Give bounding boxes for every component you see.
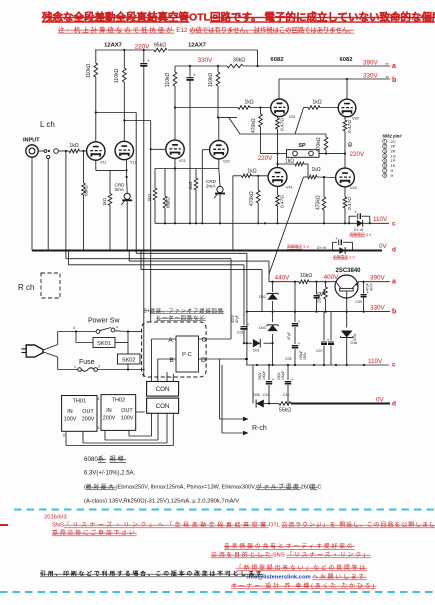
- svg-text:6082: 6082: [340, 57, 353, 63]
- svg-text:30kΩ: 30kΩ: [233, 58, 245, 64]
- resistor R 470k V41grid: [257, 176, 259, 190]
- wire bundle4: [150, 121, 152, 251]
- svg-text:1kΩ: 1kΩ: [102, 197, 107, 206]
- node fuse-sk02: [127, 368, 129, 370]
- svg-text:C09: C09: [356, 300, 363, 304]
- wire plug to top: [43, 345, 58, 351]
- node railc: [257, 222, 259, 224]
- svg-text:オーナー 設計 芥 幸博(あくた たかひろ): オーナー 設計 芥 幸博(あくた たかひろ): [231, 582, 376, 590]
- node k12: [126, 169, 128, 171]
- node sw: [48, 150, 50, 152]
- wire sub3: [128, 251, 130, 262]
- wire rail d psu thick: [291, 403, 390, 405]
- svg-text:TH02: TH02: [111, 398, 125, 404]
- wire V32 cathode: [344, 117, 346, 120]
- CRD D 2mA #1: [126, 170, 128, 177]
- svg-text:3: 3: [73, 326, 75, 330]
- svg-text:TH01: TH01: [72, 399, 86, 405]
- node subd: [246, 358, 248, 360]
- node d06: [268, 402, 270, 404]
- svg-text:6: 6: [384, 164, 386, 168]
- node railc psu: [313, 364, 315, 366]
- wire psu drop2: [150, 251, 152, 323]
- node v12b2: [123, 119, 125, 121]
- node 470kv32: [325, 153, 327, 155]
- resistor R 0.47 V42: [343, 197, 347, 208]
- svg-text:110kΩ: 110kΩ: [208, 73, 214, 87]
- svg-text:両端電圧 3 V: 両端電圧 3 V: [333, 255, 355, 260]
- node railc: [264, 222, 266, 224]
- wire V21 cathode: [174, 159, 176, 169]
- zener D02: [272, 282, 274, 292]
- node d02: [272, 281, 274, 283]
- cyan dashed separator top: [14, 509, 435, 511]
- svg-text:SK02: SK02: [122, 358, 136, 364]
- node v11b2: [95, 111, 97, 113]
- node pc D: [245, 358, 247, 360]
- SK02 box: [118, 354, 141, 364]
- svg-text:(A-class) 135V,Rk250Ω(-31.25V): (A-class) 135V,Rk250Ω(-31.25V),125mA, µ …: [84, 499, 239, 505]
- node q-b: [346, 311, 348, 313]
- svg-text:2mA: 2mA: [206, 184, 216, 189]
- svg-text:68kΩ: 68kΩ: [84, 185, 89, 196]
- wire sub5: [140, 251, 142, 270]
- resistor R 0.47 V41: [276, 195, 280, 206]
- svg-text:d: d: [392, 401, 396, 408]
- svg-text:47µF: 47µF: [235, 315, 239, 323]
- power switch: [75, 330, 77, 332]
- zener D03: [272, 312, 274, 322]
- capacitor C 220V filter: [143, 50, 145, 63]
- switch contact gnd: [47, 155, 50, 158]
- svg-text:470kΩ: 470kΩ: [316, 195, 322, 210]
- svg-text:+: +: [147, 59, 150, 64]
- capacitor C 330V filter: [189, 66, 191, 77]
- node sp1: [276, 153, 278, 155]
- svg-text:c: c: [392, 221, 396, 228]
- svg-text:V42: V42: [350, 186, 357, 190]
- resistor R 470k V32: [325, 134, 327, 137]
- node d01b: [272, 342, 274, 344]
- node railc psu: [346, 364, 348, 366]
- svg-text:+: +: [327, 338, 330, 343]
- svg-text:両端電圧 3 V: 両端電圧 3 V: [350, 232, 372, 237]
- svg-text:V22: V22: [223, 159, 230, 163]
- svg-text:b: b: [392, 309, 396, 316]
- resistor R 470k V31: [260, 108, 262, 115]
- node v41g: [257, 175, 259, 177]
- svg-text:d: d: [392, 247, 396, 254]
- wire pc A: [152, 338, 177, 340]
- svg-text:OUT: OUT: [121, 408, 133, 414]
- svg-text:+: +: [272, 378, 275, 383]
- speaker box: [287, 150, 320, 158]
- node railb: [324, 311, 326, 313]
- wire rail b psu: [247, 311, 390, 313]
- svg-text:2: 2: [384, 145, 386, 149]
- svg-text:1kΩ: 1kΩ: [285, 159, 294, 165]
- svg-text:1kΩ: 1kΩ: [244, 100, 253, 106]
- cap+diode at c: [357, 213, 359, 219]
- node railc: [323, 222, 325, 224]
- svg-text:2: 2: [98, 365, 100, 369]
- diode D01: [244, 342, 252, 344]
- node railc: [189, 222, 191, 224]
- wire sub1: [135, 251, 137, 254]
- CRD D 2mA #2: [219, 169, 220, 187]
- svg-text:1kΩ: 1kΩ: [69, 143, 78, 149]
- svg-text:10kΩ: 10kΩ: [300, 273, 312, 279]
- svg-text:57: 57: [386, 62, 390, 66]
- title line 1 (red): [42, 11, 435, 24]
- svg-text:A: A: [168, 337, 173, 344]
- wire V22 plate up: [218, 117, 220, 140]
- svg-text:6082 pin#: 6082 pin#: [383, 134, 403, 139]
- wire rch arrow 2: [221, 365, 223, 433]
- svg-text:4: 4: [384, 154, 386, 158]
- svg-text:P·C: P·C: [182, 352, 192, 358]
- svg-text:2SC3840: 2SC3840: [335, 268, 361, 274]
- resistor R 10k psu: [299, 280, 309, 284]
- node railc psu: [335, 364, 337, 366]
- node sp2: [344, 153, 346, 155]
- node d01a: [246, 342, 248, 344]
- svg-text:+: +: [335, 236, 338, 241]
- wire V21 plate up: [174, 108, 176, 141]
- wire V41 cathode: [277, 186, 279, 195]
- wire th right: [136, 411, 145, 413]
- resistor 95k on rail: [154, 46, 168, 54]
- tube V32 6082: [338, 99, 356, 117]
- capacitor C09: [363, 282, 365, 294]
- wire V11 cathode: [95, 160, 97, 170]
- svg-text:440V: 440V: [275, 275, 291, 282]
- node railc psu: [363, 364, 365, 366]
- wire V22 plate branch: [218, 116, 237, 118]
- svg-text:250V: 250V: [277, 371, 281, 380]
- resistor R 1k NFB: [278, 163, 296, 165]
- node rail2-110k4: [217, 65, 219, 67]
- svg-text:H: H: [391, 173, 394, 178]
- svg-text:a: a: [392, 63, 396, 70]
- svg-text:110kΩ: 110kΩ: [86, 64, 92, 78]
- node railb: [363, 311, 365, 313]
- resistor R 1k V32 grid: [304, 107, 309, 109]
- tube V11 12AX7: [87, 142, 105, 160]
- wire rail c 110V: [155, 222, 389, 224]
- node psu 400v: [315, 281, 317, 283]
- SK01 box: [93, 338, 115, 348]
- node railc: [219, 222, 221, 224]
- capacitor C05: [323, 312, 325, 341]
- svg-text:V32: V32: [352, 117, 359, 121]
- svg-text:IN: IN: [67, 409, 72, 415]
- node railc: [195, 222, 197, 224]
- node rail1-110k2: [123, 49, 125, 51]
- svg-text:52: 52: [386, 75, 390, 79]
- svg-text:V11: V11: [100, 161, 106, 165]
- wire jack gnd down: [31, 157, 33, 250]
- svg-text:b: b: [392, 77, 396, 84]
- svg-text:C10: C10: [263, 393, 270, 397]
- node nfb: [276, 163, 278, 165]
- svg-text:220V: 220V: [135, 44, 151, 51]
- wire sw gnd down: [47, 159, 49, 251]
- node railb: [315, 311, 317, 313]
- svg-text:100µF: 100µF: [281, 371, 285, 380]
- svg-text:L ch: L ch: [40, 120, 55, 129]
- svg-text:+: +: [247, 323, 250, 328]
- wire pc B: [158, 358, 176, 360]
- svg-text:3: 3: [384, 149, 386, 153]
- wire d01 down: [272, 343, 274, 365]
- node v21 grid: [150, 148, 152, 150]
- resistor R 110k #4: [217, 66, 219, 72]
- node V31 grid: [259, 106, 261, 108]
- node bus2: [109, 249, 111, 251]
- wire V32 plate up: [346, 79, 348, 99]
- svg-text:6080系 規格: 6080系 規格: [84, 455, 126, 463]
- svg-text:+: +: [193, 74, 196, 79]
- svg-text:B: B: [169, 357, 173, 364]
- wire sk02 down: [127, 364, 129, 370]
- svg-text:1: 1: [74, 365, 76, 369]
- resistor R 1k V42 grid: [304, 176, 309, 178]
- svg-text:0.47Ω: 0.47Ω: [347, 120, 353, 133]
- svg-text:+: +: [298, 342, 301, 347]
- svg-text:110V: 110V: [373, 216, 388, 223]
- svg-text:C11: C11: [283, 393, 289, 397]
- node a cap: [363, 281, 365, 283]
- transistor Q 2SC3840: [335, 275, 358, 298]
- resistor R 55k: [279, 402, 291, 406]
- tube V41 6082: [268, 168, 287, 187]
- svg-text:D× ×5: D× ×5: [354, 228, 363, 232]
- svg-text:V21: V21: [179, 159, 186, 163]
- node bus1: [65, 249, 67, 251]
- svg-text:INPUT: INPUT: [23, 138, 40, 144]
- svg-text:55kΩ: 55kΩ: [279, 408, 291, 414]
- diode D06: [252, 365, 254, 404]
- svg-text:D× ×5: D× ×5: [317, 246, 326, 250]
- svg-text:CON: CON: [156, 403, 170, 410]
- zener D16: [341, 331, 353, 338]
- wire bundle1: [135, 113, 137, 251]
- wire V42 cathode: [344, 187, 346, 197]
- node k21: [174, 167, 176, 169]
- node railc: [201, 222, 203, 224]
- node railc psu: [268, 364, 270, 366]
- svg-text:両端電圧 3 V: 両端電圧 3 V: [287, 244, 309, 249]
- node railc psu: [256, 364, 258, 366]
- svg-text:D01: D01: [253, 349, 260, 353]
- node in2: [82, 150, 84, 152]
- svg-text:R ch: R ch: [18, 283, 34, 292]
- wire V11 plate branch: [96, 112, 136, 114]
- resistor 30k on rail2: [227, 62, 243, 70]
- node railc: [276, 222, 278, 224]
- node b-V32: [346, 78, 348, 80]
- svg-text:ヒーター回路など: ヒーター回路など: [156, 315, 206, 322]
- node c2: [174, 106, 176, 108]
- wire V12 plate branch: [124, 120, 150, 122]
- wire psu drop1: [143, 251, 145, 378]
- svg-text:5: 5: [384, 159, 386, 163]
- resistor R 110k #2: [123, 50, 125, 68]
- svg-text:12AX7: 12AX7: [188, 43, 206, 49]
- wire fuse right: [97, 369, 144, 371]
- svg-text:68kΩ: 68kΩ: [166, 197, 171, 208]
- svg-text:C01: C01: [237, 331, 244, 335]
- svg-text:+: +: [298, 320, 301, 325]
- resistor R 110k #3: [174, 66, 176, 72]
- node railc: [174, 222, 176, 224]
- svg-text:音楽情報の共有とオーディオ愛好家の: 音楽情報の共有とオーディオ愛好家の: [224, 542, 355, 550]
- svg-text:8: 8: [384, 174, 386, 178]
- svg-text:意見交換にご参加下さい: 意見交換にご参加下さい: [52, 529, 137, 537]
- svg-text:B+遅延、ファンオフ遅延回路: B+遅延、ファンオフ遅延回路: [144, 308, 225, 315]
- svg-text:8: 8: [63, 434, 65, 438]
- TH02 box: [101, 395, 136, 431]
- wire V41 plate up: [277, 154, 279, 168]
- node rail2-cap2: [189, 65, 191, 67]
- svg-text:6082: 6082: [271, 57, 284, 63]
- capacitor C01: [243, 265, 245, 326]
- wire in1 down: [65, 151, 67, 251]
- wire plug to bottom: [43, 352, 58, 357]
- svg-text:0.47Ω: 0.47Ω: [280, 118, 286, 131]
- wire rail1 corner down: [257, 50, 259, 66]
- node railc psu: [287, 364, 289, 366]
- resistor R 1k cathode: [109, 170, 111, 193]
- resistor R 0.47 V31: [276, 118, 280, 129]
- node v42g: [323, 176, 325, 178]
- node sw-right: [127, 330, 129, 332]
- resistor R 1k V31 grid: [238, 106, 250, 110]
- wire rail c psu: [246, 364, 389, 366]
- svg-text:470kΩ: 470kΩ: [251, 118, 257, 133]
- wire stage2 cathode line: [155, 168, 219, 170]
- svg-text:V12: V12: [130, 161, 137, 165]
- svg-text:+: +: [319, 292, 322, 297]
- wire rail a psu: [359, 281, 391, 283]
- resistor R 1k stage2b: [195, 169, 197, 179]
- svg-text:110kΩ: 110kΩ: [114, 69, 120, 83]
- svg-text:a: a: [392, 279, 396, 286]
- svg-text:250V: 250V: [303, 351, 307, 360]
- resistor R 68k stage2: [164, 169, 166, 197]
- svg-text:CON: CON: [156, 386, 170, 393]
- wire sw to box: [128, 331, 142, 333]
- svg-text:4: 4: [116, 326, 118, 330]
- cyan dashed separator bottom: [0, 591, 435, 593]
- svg-text:220V: 220V: [350, 151, 366, 158]
- R-ch dashed box: [41, 273, 60, 298]
- svg-text:100µF: 100µF: [262, 371, 266, 380]
- svg-text:330V: 330V: [363, 73, 379, 80]
- svg-text:R-ch: R-ch: [252, 425, 267, 432]
- node bus4: [135, 249, 137, 251]
- svg-text:95kΩ: 95kΩ: [154, 43, 166, 49]
- red tick left: [0, 524, 8, 526]
- svg-text:7: 7: [384, 169, 386, 173]
- node bus3: [126, 249, 128, 251]
- svg-text:1kΩ: 1kΩ: [312, 100, 321, 106]
- wire slant to lower line: [229, 117, 240, 134]
- wire diagonal main: [269, 177, 304, 274]
- pin mark 6: [348, 143, 352, 147]
- node rail2-corner: [256, 65, 258, 67]
- resistor R 110k #1: [95, 50, 97, 63]
- svg-text:390V: 390V: [363, 60, 379, 67]
- wire sk01: [75, 332, 77, 343]
- svg-text:0V: 0V: [376, 397, 385, 404]
- svg-text:0V: 0V: [379, 243, 388, 250]
- svg-text:4: 4: [98, 397, 100, 401]
- svg-text:47µF: 47µF: [287, 332, 291, 340]
- wire th under: [65, 431, 67, 445]
- svg-text:C: C: [202, 337, 207, 344]
- svg-text:info@listenerslink.com へお願いします: info@listenerslink.com へお願いします: [247, 574, 366, 581]
- svg-text:残念な全段差動全段直結真空管OTL回路です。 電子的に成立し: 残念な全段差動全段直結真空管OTL回路です。 電子的に成立していない致命的な個所…: [42, 11, 435, 24]
- resistor R 1k V41 grid: [233, 175, 242, 177]
- wire V22 grid: [202, 149, 209, 151]
- node psu 20k: [324, 281, 326, 283]
- node railc psu: [323, 364, 325, 366]
- svg-text:SNS「リスナーズ・リンク」へ「全段差動全段直結真空管OTL: SNS「リスナーズ・リンク」へ「全段差動全段直結真空管OTL 交流ラウンジ」を …: [52, 521, 435, 529]
- svg-text:200V: 200V: [82, 417, 95, 423]
- svg-text:C0?: C0?: [316, 349, 323, 353]
- svg-text:IN: IN: [106, 408, 111, 414]
- node railb: [246, 311, 248, 313]
- resistor R 1k input: [69, 149, 80, 153]
- wire V31 plate up: [278, 79, 280, 99]
- svg-text:0.47Ω: 0.47Ω: [347, 197, 353, 210]
- tube V31 6082: [271, 99, 289, 117]
- svg-text:400V: 400V: [231, 314, 235, 323]
- switch contact 1: [44, 150, 47, 153]
- input jack: [26, 145, 38, 157]
- svg-text:0.47Ω: 0.47Ω: [280, 195, 286, 208]
- TH01 box: [62, 396, 97, 432]
- svg-text:Fuse: Fuse: [79, 359, 95, 366]
- svg-text:390V: 390V: [370, 275, 386, 282]
- svg-text:3: 3: [98, 426, 100, 430]
- wire slant V32grid: [295, 108, 304, 135]
- svg-text:220V: 220V: [258, 155, 274, 162]
- svg-text:V41: V41: [286, 186, 293, 190]
- wire 330V rail: [175, 65, 390, 67]
- svg-text:D: D: [201, 357, 206, 364]
- B+ dashed box: [142, 322, 207, 377]
- svg-text:100V: 100V: [121, 416, 134, 422]
- node in1: [65, 150, 67, 152]
- node railc psu: [272, 364, 274, 366]
- wire rch arrow 1: [219, 359, 221, 419]
- svg-text:+: +: [354, 210, 357, 215]
- wire 440V rail: [268, 274, 270, 282]
- svg-text:1kΩ: 1kΩ: [147, 193, 152, 202]
- svg-text:「新規登録出来ない」などの質問等は: 「新規登録出来ない」などの質問等は: [236, 564, 367, 572]
- CON box 1: [147, 382, 179, 397]
- tube V21 12AX7: [166, 140, 184, 158]
- resistor R 470k V42: [323, 177, 325, 197]
- svg-text:200V: 200V: [103, 416, 116, 422]
- svg-text:330V: 330V: [370, 305, 386, 312]
- PC box: [176, 336, 199, 372]
- svg-text:Power Sw: Power Sw: [88, 318, 120, 325]
- svg-text:400V: 400V: [370, 282, 374, 291]
